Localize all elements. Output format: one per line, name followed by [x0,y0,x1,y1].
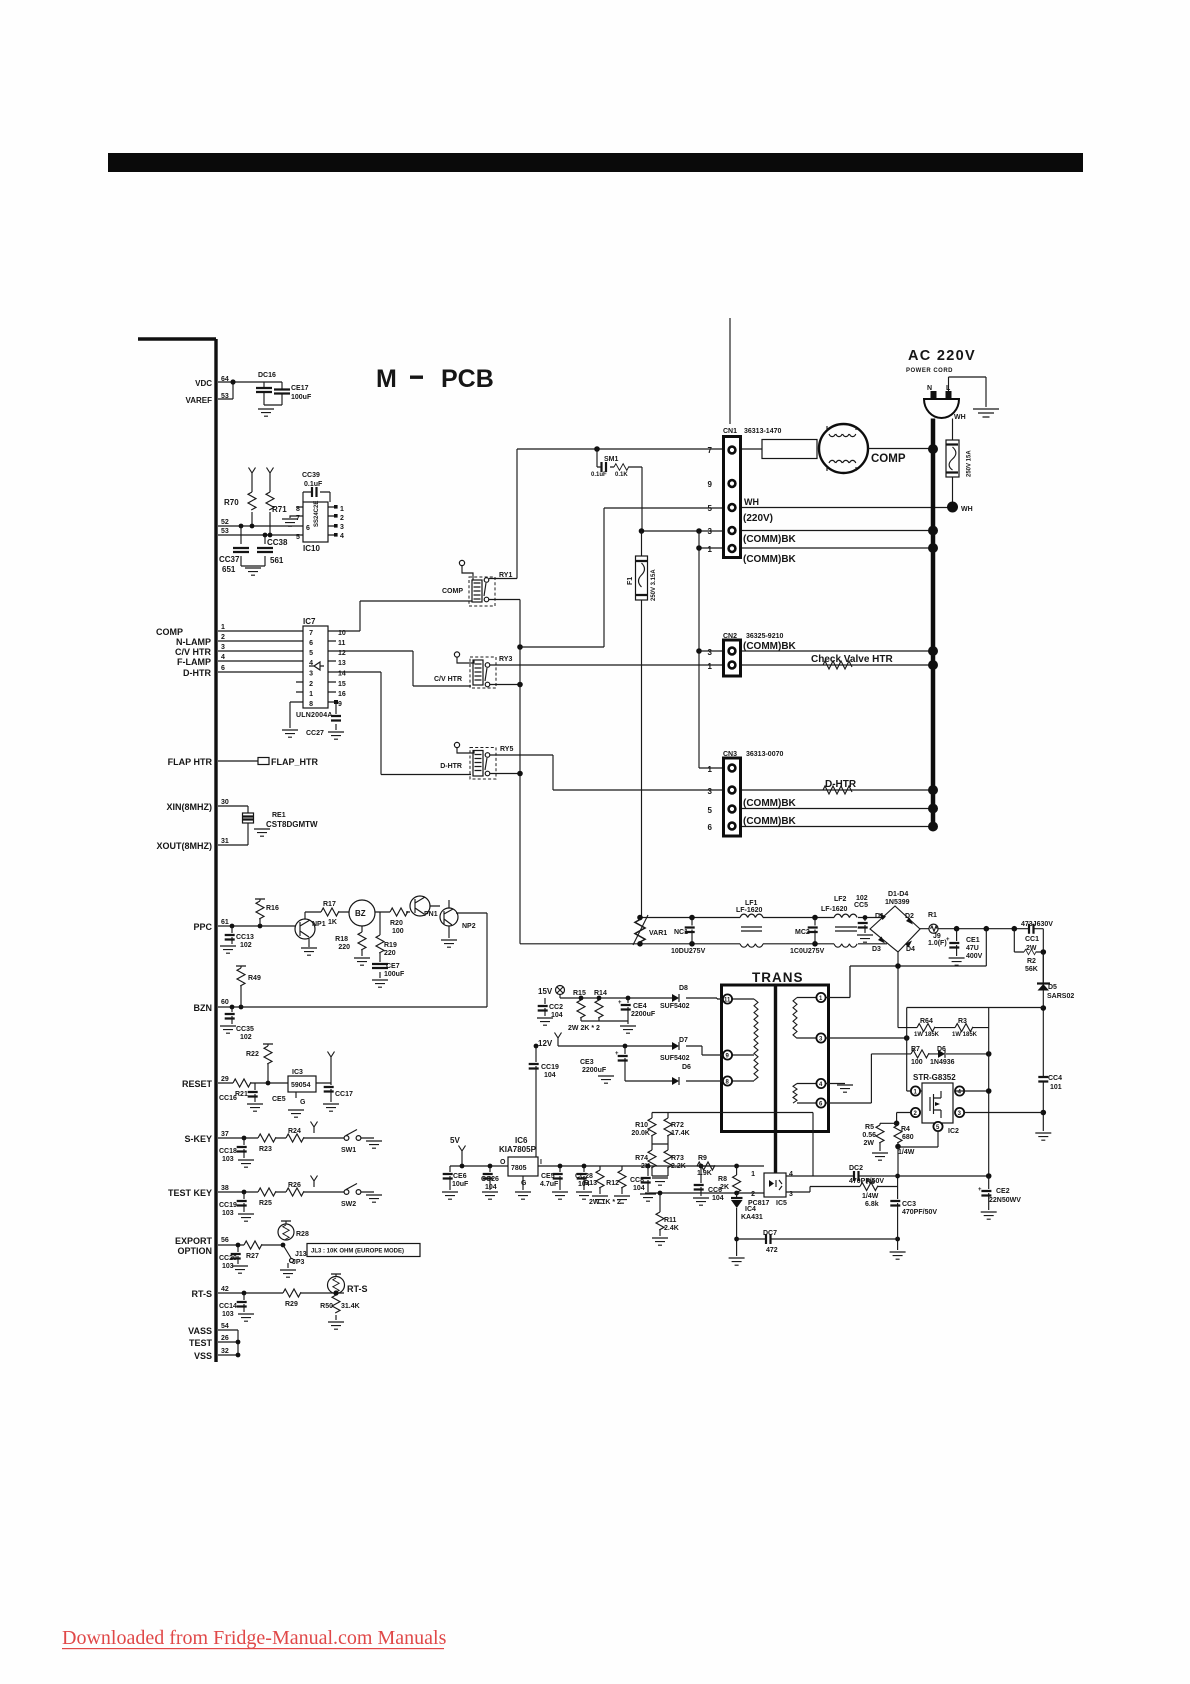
svg-text:CC20: CC20 [219,1255,237,1262]
svg-text:VSS: VSS [194,1351,212,1361]
svg-text:6.8k: 6.8k [865,1201,879,1208]
svg-text:1.9K: 1.9K [697,1170,712,1177]
svg-text:J9: J9 [933,933,941,940]
svg-text:RE1: RE1 [272,812,286,819]
svg-text:CE6: CE6 [453,1173,467,1180]
svg-text:R18: R18 [335,936,348,943]
svg-text:1: 1 [340,506,344,513]
svg-text:4: 4 [789,1171,793,1178]
svg-text:220: 220 [384,950,396,957]
svg-text:5: 5 [708,504,713,513]
svg-text:15: 15 [338,681,346,688]
svg-text:D4: D4 [906,946,915,953]
svg-text:100uF: 100uF [291,394,312,401]
svg-text:102: 102 [240,942,252,949]
svg-text:32: 32 [221,1348,229,1355]
svg-text:R8: R8 [718,1176,727,1183]
svg-text:C/V HTR: C/V HTR [434,676,462,683]
svg-text:1: 1 [221,624,225,631]
svg-text:R22: R22 [246,1051,259,1058]
svg-text:LF-1620: LF-1620 [736,907,763,914]
svg-text:7805: 7805 [511,1165,527,1172]
svg-text:2200uF: 2200uF [582,1067,607,1074]
svg-text:3: 3 [708,527,713,536]
svg-text:POWER CORD: POWER CORD [906,368,953,374]
svg-text:680: 680 [902,1134,914,1141]
svg-text:CC14: CC14 [219,1303,237,1310]
svg-text:SARS02: SARS02 [1047,993,1074,1000]
svg-text:R74: R74 [635,1155,648,1162]
svg-text:1/4W: 1/4W [898,1149,915,1156]
svg-text:2: 2 [221,634,225,641]
svg-text:CE5: CE5 [272,1096,286,1103]
svg-text:36325-9210: 36325-9210 [746,633,783,640]
svg-text:EXPORT: EXPORT [175,1236,213,1246]
svg-text:D-HTR: D-HTR [183,668,211,678]
svg-text:5: 5 [309,650,313,657]
svg-text:2K: 2K [720,1184,729,1191]
svg-text:N-LAMP: N-LAMP [176,637,211,647]
svg-text:COMP: COMP [871,453,906,465]
svg-text:N: N [927,385,932,392]
svg-text:37: 37 [221,1131,229,1138]
svg-text:2: 2 [309,681,313,688]
svg-text:MC2: MC2 [795,929,810,936]
svg-text:561: 561 [270,556,284,565]
svg-text:XIN(8MHZ): XIN(8MHZ) [167,802,213,812]
svg-text:RY5: RY5 [500,746,513,753]
svg-text:(COMM)BK: (COMM)BK [743,641,797,652]
svg-text:26: 26 [221,1335,229,1342]
svg-text:6: 6 [306,525,310,532]
svg-text:102: 102 [856,895,868,902]
svg-text:CC5: CC5 [854,902,868,909]
svg-text:R5: R5 [865,1124,874,1131]
svg-text:104: 104 [544,1072,556,1079]
svg-text:+: + [978,1187,982,1193]
svg-text:KA431: KA431 [741,1214,763,1221]
svg-text:0.1uF: 0.1uF [591,472,607,478]
svg-text:CC38: CC38 [267,538,288,547]
svg-text:TEST: TEST [189,1338,213,1348]
svg-text:56: 56 [221,1237,229,1244]
svg-text:CC19: CC19 [219,1202,237,1209]
svg-text:CC27: CC27 [306,730,324,737]
svg-text:R17: R17 [323,901,336,908]
svg-text:CE7: CE7 [386,963,400,970]
svg-text:4.7uF: 4.7uF [540,1181,559,1188]
svg-text:LF1: LF1 [745,900,758,907]
svg-text:PCB: PCB [441,365,494,393]
svg-text:SW1: SW1 [341,1147,356,1154]
svg-text:IC5: IC5 [776,1200,787,1207]
svg-text:15V: 15V [538,987,553,996]
svg-text:WH: WH [954,414,966,421]
svg-text:16: 16 [338,691,346,698]
svg-text:20.0K: 20.0K [631,1130,650,1137]
svg-text:F-LAMP: F-LAMP [177,657,211,667]
svg-text:O: O [500,1159,506,1166]
svg-text:2W: 2W [1026,945,1037,952]
svg-text:+: + [946,937,950,943]
svg-text:12V: 12V [538,1039,553,1048]
svg-text:PN1: PN1 [424,911,438,918]
svg-text:CC17: CC17 [335,1091,353,1098]
svg-text:WH: WH [961,506,973,513]
svg-text:CE2: CE2 [996,1188,1010,1195]
svg-text:2W: 2W [864,1140,875,1147]
svg-text:NP1: NP1 [312,921,326,928]
svg-text:(COMM)BK: (COMM)BK [743,534,797,545]
svg-text:1.0(F): 1.0(F) [928,940,947,947]
svg-text:61: 61 [221,919,229,926]
svg-text:SUF5402: SUF5402 [660,1055,690,1062]
svg-text:104: 104 [485,1184,497,1191]
svg-text:CC3: CC3 [902,1201,916,1208]
svg-text:D5: D5 [1048,984,1057,991]
svg-text:R11: R11 [664,1217,677,1224]
svg-text:250V 3.15A: 250V 3.15A [651,569,657,601]
svg-text:R24: R24 [288,1128,301,1135]
svg-text:CC39: CC39 [302,472,320,479]
svg-text:R1: R1 [928,912,937,919]
svg-text:R49: R49 [248,975,261,982]
svg-text:53: 53 [221,528,229,535]
svg-text:1K: 1K [328,919,337,926]
svg-text:D2: D2 [905,913,914,920]
svg-text:CC18: CC18 [219,1148,237,1155]
svg-text:8: 8 [296,506,300,513]
svg-text:SS24C2E: SS24C2E [314,501,320,527]
svg-text:0.56: 0.56 [862,1132,876,1139]
svg-text:31.4K: 31.4K [341,1303,360,1310]
svg-text:CE5: CE5 [541,1173,555,1180]
svg-text:1: 1 [751,1171,755,1178]
svg-text:473J630V: 473J630V [1021,921,1053,928]
svg-text:IC10: IC10 [303,544,320,553]
svg-text:D7: D7 [679,1037,688,1044]
svg-text:SUF5402: SUF5402 [660,1003,690,1010]
svg-text:R13: R13 [584,1180,597,1187]
svg-text:5: 5 [296,534,300,541]
svg-text:Check Valve HTR: Check Valve HTR [811,654,893,665]
svg-text:D1-D4: D1-D4 [888,891,908,898]
svg-text:103: 103 [222,1210,234,1217]
svg-text:17.4K: 17.4K [671,1130,690,1137]
svg-text:31: 31 [221,838,229,845]
svg-text:R72: R72 [671,1122,684,1129]
svg-text:R15: R15 [573,990,586,997]
svg-text:RY3: RY3 [499,656,512,663]
svg-text:IC4: IC4 [745,1206,756,1213]
svg-text:TRANS: TRANS [752,970,804,985]
svg-text:5: 5 [708,806,713,815]
svg-text:R14: R14 [594,990,607,997]
svg-text:R12: R12 [606,1180,619,1187]
svg-text:RT-S: RT-S [191,1289,212,1299]
svg-text:6: 6 [309,640,313,647]
svg-text:220: 220 [338,944,350,951]
svg-text:3: 3 [221,644,225,651]
svg-text:M: M [376,365,397,393]
svg-text:SM1: SM1 [604,456,619,463]
svg-text:R4: R4 [901,1126,910,1133]
svg-text:G: G [521,1180,527,1187]
svg-text:4: 4 [221,654,225,661]
svg-text:IC2: IC2 [948,1128,959,1135]
svg-text:R26: R26 [288,1182,301,1189]
svg-text:(COMM)BK: (COMM)BK [743,554,797,565]
svg-text:1N5399: 1N5399 [885,899,910,906]
svg-text:38: 38 [221,1185,229,1192]
svg-text:R19: R19 [384,942,397,949]
svg-text:Downloaded from Fridge-Manual.: Downloaded from Fridge-Manual.com Manual… [62,1627,447,1649]
svg-text:CC35: CC35 [236,1026,254,1033]
svg-text:54: 54 [221,1323,229,1330]
svg-text:VAREF: VAREF [185,396,212,405]
svg-text:G: G [300,1099,306,1106]
svg-text:S-KEY: S-KEY [184,1134,212,1144]
svg-text:103: 103 [222,1311,234,1318]
svg-text:5V: 5V [450,1136,460,1145]
svg-text:SW2: SW2 [341,1201,356,1208]
svg-text:470PF/50V: 470PF/50V [902,1209,937,1216]
svg-text:PPC: PPC [193,922,212,932]
svg-text:29: 29 [221,1076,229,1083]
svg-text:1: 1 [708,545,713,554]
svg-text:2: 2 [751,1191,755,1198]
svg-text:CE3: CE3 [580,1059,594,1066]
svg-text:3: 3 [708,648,713,657]
svg-text:D-HTR: D-HTR [825,779,857,790]
svg-text:JL3 : 10K OHM (EUROPE MODE): JL3 : 10K OHM (EUROPE MODE) [311,1249,404,1255]
svg-text:R7: R7 [911,1046,920,1053]
svg-text:CC13: CC13 [236,934,254,941]
svg-text:OPTION: OPTION [177,1246,212,1256]
svg-text:10uF: 10uF [452,1181,469,1188]
svg-text:2: 2 [340,515,344,522]
svg-text:1C0U275V: 1C0U275V [790,948,825,955]
svg-text:52: 52 [221,519,229,526]
svg-text:+: + [615,1051,619,1057]
svg-text:IC3: IC3 [292,1069,303,1076]
svg-text:47U: 47U [966,945,979,952]
svg-text:D6: D6 [937,1046,946,1053]
svg-text:DC7: DC7 [763,1230,777,1237]
svg-text:CC16: CC16 [219,1095,237,1102]
svg-text:BZN: BZN [194,1003,213,1013]
svg-text:BZ: BZ [355,909,366,918]
svg-text:C/V HTR: C/V HTR [175,647,212,657]
svg-text:IC7: IC7 [303,617,316,626]
svg-text:30: 30 [221,799,229,806]
svg-text:COMP: COMP [442,588,463,595]
svg-text:R71: R71 [272,505,287,514]
svg-text:400V: 400V [966,953,983,960]
svg-text:101: 101 [1050,1084,1062,1091]
svg-text:104: 104 [633,1185,645,1192]
svg-text:CST8DGMTW: CST8DGMTW [266,820,318,829]
svg-text:103: 103 [222,1156,234,1163]
svg-text:R10: R10 [635,1122,648,1129]
svg-text:DC2: DC2 [849,1165,863,1172]
svg-text:R16: R16 [266,905,279,912]
svg-text:CC37: CC37 [219,555,240,564]
svg-text:DC16: DC16 [258,372,276,379]
svg-text:WH: WH [744,497,759,507]
svg-text:VDC: VDC [195,379,212,388]
svg-text:R64: R64 [920,1018,933,1025]
svg-text:D1: D1 [875,913,884,920]
svg-text:60: 60 [221,999,229,1006]
svg-text:CN1: CN1 [723,428,737,435]
svg-text:1: 1 [708,765,713,774]
svg-text:CC1: CC1 [1025,936,1039,943]
svg-text:D8: D8 [679,985,688,992]
svg-text:R20: R20 [390,920,403,927]
svg-text:59054: 59054 [291,1082,311,1089]
svg-text:CC8: CC8 [630,1177,644,1184]
svg-text:7: 7 [708,446,713,455]
svg-text:13: 13 [338,660,346,667]
svg-text:RT-S: RT-S [347,1284,368,1294]
svg-text:LF2: LF2 [834,896,847,903]
svg-text:1N4936: 1N4936 [930,1059,955,1066]
svg-text:XOUT(8MHZ): XOUT(8MHZ) [157,841,213,851]
svg-text:CC26: CC26 [481,1176,499,1183]
svg-text:4: 4 [340,533,344,540]
svg-text:LF-1620: LF-1620 [821,906,848,913]
svg-text:100uF: 100uF [384,971,405,978]
svg-text:22N50WV: 22N50WV [989,1197,1021,1204]
svg-text:3: 3 [309,671,313,678]
svg-text:CC19: CC19 [541,1064,559,1071]
svg-text:(220V): (220V) [743,513,773,524]
svg-text:CC28: CC28 [575,1173,593,1180]
svg-text:42: 42 [221,1286,229,1293]
svg-text:AC 220V: AC 220V [908,348,976,364]
svg-text:FLAP HTR: FLAP HTR [168,757,213,767]
svg-text:11: 11 [724,998,731,1004]
svg-text:R28: R28 [296,1231,309,1238]
svg-text:COMP: COMP [156,627,183,637]
svg-text:KIA7805P: KIA7805P [499,1145,537,1154]
svg-text:10DU275V: 10DU275V [671,948,706,955]
svg-text:FLAP_HTR: FLAP_HTR [271,757,319,767]
svg-text:CE1: CE1 [966,937,980,944]
svg-text:+: + [618,1000,622,1006]
svg-text:6: 6 [708,823,713,832]
svg-text:2W 1K * 2: 2W 1K * 2 [589,1199,621,1206]
svg-text:9: 9 [338,701,342,708]
svg-text:56K: 56K [1025,966,1038,973]
svg-text:VAR1: VAR1 [649,930,667,937]
svg-text:104: 104 [712,1195,724,1202]
svg-text:1: 1 [309,691,313,698]
svg-text:3: 3 [340,524,344,531]
svg-text:11: 11 [338,640,346,647]
svg-text:100: 100 [392,928,404,935]
svg-text:472: 472 [766,1247,778,1254]
svg-text:IC6: IC6 [515,1136,528,1145]
svg-text:CC2: CC2 [549,1004,563,1011]
svg-text:I: I [540,1159,542,1166]
svg-text:0.1uF: 0.1uF [304,481,323,488]
svg-text:R27: R27 [246,1253,259,1260]
svg-text:100: 100 [911,1059,923,1066]
svg-text:6: 6 [221,665,225,672]
svg-text:250V 15A: 250V 15A [967,450,973,477]
svg-text:9: 9 [708,480,713,489]
svg-text:36313-1470: 36313-1470 [744,428,781,435]
svg-text:D-HTR: D-HTR [440,763,462,770]
svg-text:(COMM)BK: (COMM)BK [743,816,797,827]
svg-text:TEST KEY: TEST KEY [168,1188,212,1198]
svg-text:1W 185K: 1W 185K [952,1032,978,1038]
svg-text:0.1K: 0.1K [615,472,628,478]
svg-text:R2: R2 [1027,958,1036,965]
svg-text:2W 2K * 2: 2W 2K * 2 [568,1025,600,1032]
svg-text:RESET: RESET [182,1079,213,1089]
svg-text:JP3: JP3 [292,1259,305,1266]
svg-text:CE4: CE4 [633,1003,647,1010]
svg-text:1: 1 [708,662,713,671]
svg-text:F1: F1 [627,577,634,585]
svg-text:R9: R9 [698,1155,707,1162]
svg-text:CE17: CE17 [291,385,309,392]
svg-text:R21: R21 [235,1091,248,1098]
svg-text:CC4: CC4 [1048,1075,1062,1082]
svg-text:VASS: VASS [188,1326,212,1336]
svg-text:36313-0070: 36313-0070 [746,751,783,758]
svg-text:3: 3 [708,787,713,796]
svg-text:R25: R25 [259,1200,272,1207]
svg-text:STR-G8352: STR-G8352 [913,1073,956,1082]
svg-text:NP2: NP2 [462,923,476,930]
svg-text:7: 7 [309,630,313,637]
svg-text:D6: D6 [682,1064,691,1071]
svg-text:R29: R29 [285,1301,298,1308]
svg-text:102: 102 [240,1034,252,1041]
svg-text:(COMM)BK: (COMM)BK [743,798,797,809]
svg-text:J13: J13 [295,1251,307,1258]
svg-text:D3: D3 [872,946,881,953]
svg-text:2200uF: 2200uF [631,1011,656,1018]
svg-text:R3: R3 [958,1018,967,1025]
svg-text:2.4K: 2.4K [664,1225,679,1232]
svg-text:R6: R6 [866,1179,875,1186]
svg-text:651: 651 [222,565,236,574]
svg-text:R73: R73 [671,1155,684,1162]
svg-text:1W 185K: 1W 185K [914,1032,940,1038]
svg-text:R50: R50 [320,1303,333,1310]
svg-text:1/4W: 1/4W [862,1193,879,1200]
svg-text:R23: R23 [259,1146,272,1153]
svg-text:ULN2004A: ULN2004A [296,712,333,719]
svg-text:R70: R70 [224,498,239,507]
svg-text:NC1: NC1 [674,929,688,936]
svg-text:8: 8 [309,701,313,708]
